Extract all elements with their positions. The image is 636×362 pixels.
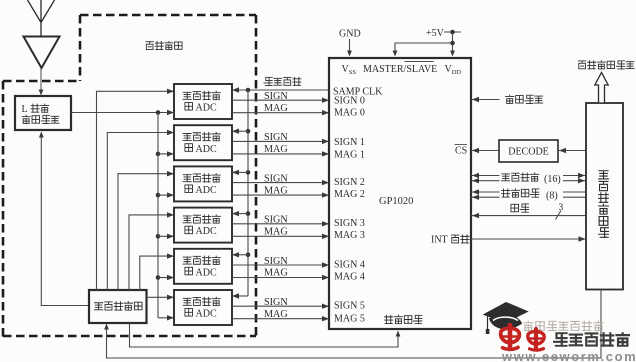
label 微处理器系统 vertical	[599, 171, 609, 179]
svg-text:L: L	[22, 104, 28, 115]
watermark faint label 振荡器频率选择	[524, 321, 533, 331]
wire SIGN 0 channel to GP1020	[232, 99, 328, 101]
wire MAG 3 channel to GP1020	[232, 235, 328, 237]
L-band downconverter box L频带下变频器	[15, 96, 71, 130]
svg-text:SIGN 1: SIGN 1	[334, 137, 365, 148]
wire antenna to downconverter	[40, 68, 42, 95]
wire sample clock branch to ADC2	[233, 130, 248, 132]
wire GND to Vss	[349, 39, 351, 55]
wire SIGN 5 channel to GP1020	[232, 305, 328, 307]
svg-text:ADC: ADC	[196, 144, 217, 155]
GP1020 correlator box	[329, 58, 471, 329]
wire MAG 4 channel to GP1020	[232, 277, 328, 279]
wire DECODE input from microprocessor	[558, 150, 586, 152]
watermark text 电子下载站	[554, 333, 567, 346]
wire MAG 0 channel to GP1020	[232, 112, 328, 114]
svg-text:MAG 3: MAG 3	[334, 230, 365, 241]
svg-text:MAG 1: MAG 1	[334, 149, 365, 160]
junction dot sample clock row 2	[246, 129, 251, 134]
wire MAG 1 channel to GP1020	[232, 153, 328, 155]
wire SIGN 3 channel to GP1020	[232, 223, 328, 225]
address bus 地址总线 (8)	[471, 191, 500, 193]
svg-text:MAG: MAG	[264, 309, 288, 320]
pin 主设时钟 master clock	[385, 315, 393, 323]
channel select and ADC box 4 通道选择和ADC	[174, 208, 232, 243]
wire IF branch to ADC2	[158, 153, 173, 155]
svg-text:GP1020: GP1020	[379, 196, 413, 207]
wire IF branch to ADC5	[158, 277, 173, 279]
wire sample clock vertical	[247, 90, 249, 296]
wire sample clock branch to ADC3	[233, 171, 248, 173]
wire IF output of downconverter to ADC1	[71, 112, 173, 114]
wire freq-gen clock riser to ADC2	[107, 133, 173, 291]
antenna amplifier triangle	[24, 37, 60, 69]
svg-text:SIGN: SIGN	[264, 173, 288, 184]
svg-text:CS: CS	[455, 146, 467, 157]
RF dashed boundary upper-left vertical	[79, 15, 82, 81]
junction dot sample clock row 3	[246, 170, 251, 175]
antenna	[28, 0, 55, 36]
svg-text:SIGN: SIGN	[264, 132, 288, 143]
wire +5V branch to MASTER/SLAVE pin	[395, 43, 453, 55]
RF dashed boundary bottom	[3, 335, 256, 338]
bus width slash 3	[556, 211, 562, 220]
wire SAMP CLK from GP1020	[233, 89, 329, 91]
svg-text:SIGN 4: SIGN 4	[334, 259, 365, 270]
wire freq-gen clock riser to ADC4	[129, 215, 173, 290]
RF front-end dashed boundary top	[80, 14, 256, 17]
svg-text:(8): (8)	[546, 191, 558, 202]
svg-text:MAG: MAG	[264, 268, 288, 279]
junction dot sample clock row 5	[246, 253, 251, 258]
watermark graduation cap	[484, 303, 528, 323]
wire sample clock branch to ADC5	[233, 254, 248, 256]
wire IF bus vertical	[157, 113, 159, 318]
svg-text:MAG: MAG	[264, 103, 288, 114]
svg-text:(16): (16)	[544, 174, 561, 185]
wire freq-gen clock riser to ADC5	[140, 256, 173, 290]
svg-text:SIGN 3: SIGN 3	[334, 218, 365, 229]
wire master clock freq-gen to GP1020	[130, 323, 399, 347]
wire sample clock branch to ADC4	[233, 213, 248, 215]
junction dot +5V branch	[450, 41, 455, 46]
junction dot IF bus row 2	[156, 152, 161, 157]
svg-text:MAG: MAG	[264, 227, 288, 238]
junction dot +5V	[450, 30, 455, 35]
wire sample clock branch to ADC6	[233, 295, 248, 297]
RF dashed boundary left vertical	[2, 81, 5, 337]
watermark bug logo 虫虫	[501, 325, 520, 349]
microprocessor system box 微处理器系统	[586, 103, 623, 290]
junction dot IF bus row 3	[156, 193, 161, 198]
wire LO feed freq-gen to downconverter	[41, 133, 89, 306]
wire INT to microprocessor	[471, 238, 585, 240]
svg-text:MASTER/SLAVE: MASTER/SLAVE	[363, 64, 437, 75]
svg-text:MAG: MAG	[264, 144, 288, 155]
RF dashed boundary right vertical	[255, 15, 258, 336]
junction dot sample clock	[246, 88, 251, 93]
frequency generator box 频率发生器	[89, 290, 147, 323]
label 主设复位	[506, 95, 514, 104]
svg-text:MAG 4: MAG 4	[334, 271, 365, 282]
wire freq-gen clock riser to ADC1	[97, 91, 174, 290]
label 采样时钟 sample clock	[264, 77, 273, 85]
wire MAG 5 channel to GP1020	[232, 318, 328, 320]
svg-text:3: 3	[559, 203, 564, 213]
svg-text:MAG: MAG	[264, 185, 288, 196]
label 导航解决方案 navigation solution	[578, 61, 585, 69]
svg-text:INT: INT	[431, 235, 448, 246]
svg-text:SIGN: SIGN	[264, 91, 288, 102]
svg-text:SIGN 0: SIGN 0	[334, 96, 365, 107]
label 数据总线	[502, 174, 510, 181]
svg-text:DECODE: DECODE	[508, 147, 549, 158]
svg-text:ADC: ADC	[196, 185, 217, 196]
svg-text:SIGN: SIGN	[264, 256, 288, 267]
junction dot IF bus row 5	[156, 275, 161, 280]
wire freq-gen direct clock to ADC6	[147, 296, 174, 298]
DECODE box	[499, 140, 558, 162]
channel select and ADC box 1 通道选择和ADC	[174, 84, 232, 119]
wire IF branch to ADC6	[158, 317, 173, 319]
svg-text:+5V: +5V	[426, 28, 445, 39]
svg-text:GND: GND	[339, 29, 361, 40]
svg-text:SIGN 2: SIGN 2	[334, 177, 365, 188]
RF dashed boundary upper-left horizontal	[3, 80, 80, 83]
svg-text:ADC: ADC	[196, 267, 217, 278]
wire master reset 主设复位	[471, 99, 500, 101]
label RF front-end 射频前端	[146, 42, 153, 50]
wire SIGN 4 channel to GP1020	[232, 264, 328, 266]
svg-text:MAG 0: MAG 0	[334, 108, 365, 119]
junction dot sample clock row 4	[246, 211, 251, 216]
svg-text:SIGN 5: SIGN 5	[334, 301, 365, 312]
wire +5V lead	[444, 31, 461, 33]
control bus 控制	[471, 215, 586, 217]
hollow arrow navigation output	[595, 73, 608, 104]
svg-text:ADC: ADC	[196, 309, 217, 320]
svg-text:ADC: ADC	[196, 226, 217, 237]
wire freq-gen clock riser to ADC3	[118, 174, 173, 290]
svg-text:ADC: ADC	[196, 103, 217, 114]
svg-text:SIGN: SIGN	[264, 297, 288, 308]
label 控制	[511, 204, 519, 212]
wire frequency select microprocessor to freq-gen	[107, 290, 602, 359]
wire SIGN 1 channel to GP1020	[232, 140, 328, 142]
svg-text:www.eeworm.com: www.eeworm.com	[501, 349, 636, 362]
data bus 数据总线 (16)	[471, 175, 500, 177]
junction dot IF bus row 4	[156, 234, 161, 239]
wire SIGN 2 channel to GP1020	[232, 182, 328, 184]
wire IF branch to ADC4	[158, 235, 173, 237]
channel select and ADC box 3 通道选择和ADC	[174, 166, 232, 201]
wire +5V to Vdd	[452, 32, 454, 55]
label 地址总线	[502, 189, 510, 197]
svg-text:VDD: VDD	[445, 64, 462, 76]
wire CS from DECODE to GP1020	[471, 150, 499, 152]
channel select and ADC box 6 通道选择和ADC	[174, 290, 232, 325]
junction dot IF bus top	[156, 110, 161, 115]
svg-text:MAG 2: MAG 2	[334, 189, 365, 200]
svg-text:MAG 5: MAG 5	[334, 314, 365, 325]
channel select and ADC box 5 通道选择和ADC	[174, 249, 232, 284]
wire MAG 2 channel to GP1020	[232, 194, 328, 196]
channel select and ADC box 2 通道选择和ADC	[174, 125, 232, 160]
svg-text:SIGN: SIGN	[264, 215, 288, 226]
wire IF branch to ADC3	[158, 194, 173, 196]
svg-text:VSS: VSS	[342, 64, 357, 76]
